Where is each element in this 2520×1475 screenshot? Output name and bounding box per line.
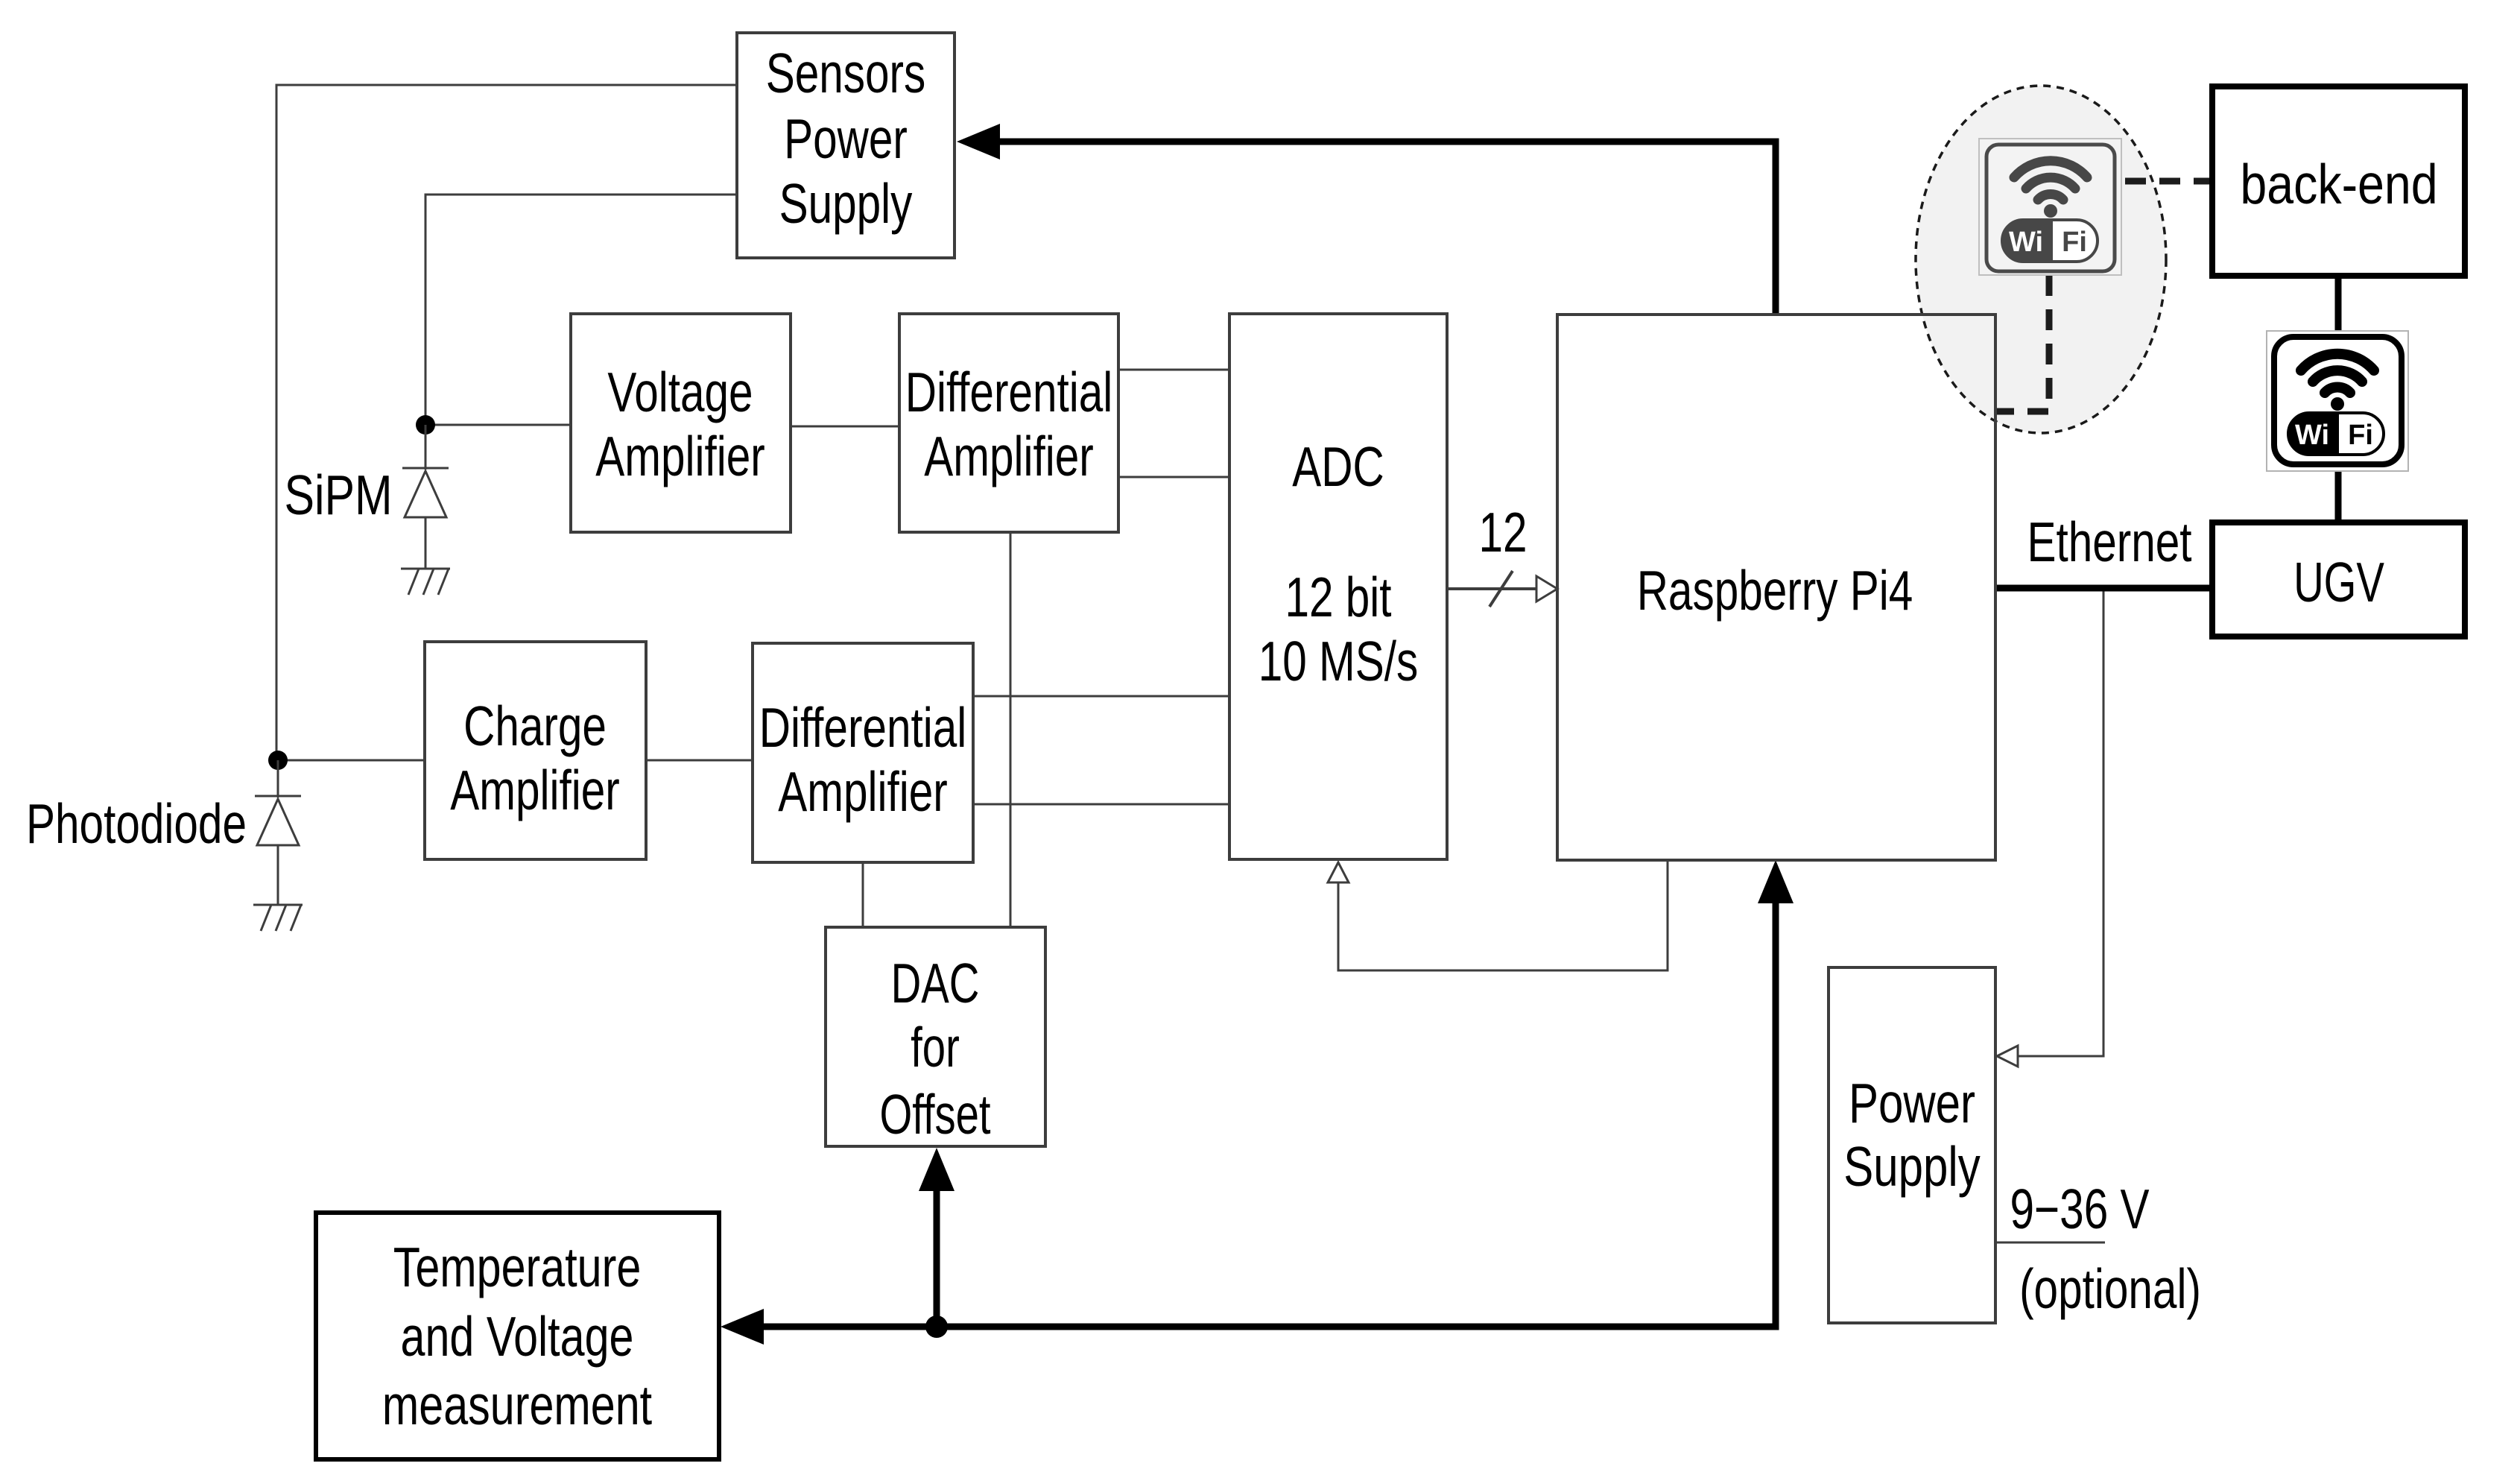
wire: lower Differential Amplifier to ADC input 4 [973, 803, 1229, 806]
wire: ADC data bus to Raspberry Pi4 [1448, 587, 1536, 590]
wire: Differential Amplifier to ADC input 1 [1118, 369, 1229, 371]
arrowhead: up into DAC [919, 1148, 955, 1191]
svg-text:UGV: UGV [2293, 552, 2384, 614]
svg-text:for: for [911, 1017, 960, 1079]
svg-text:measurement: measurement [382, 1374, 652, 1436]
svg-text:ADC: ADC [1292, 436, 1384, 499]
svg-text:10 MS/s: 10 MS/s [1259, 631, 1419, 693]
wire: lower Differential Amplifier offset input from DAC [862, 862, 864, 927]
svg-text:Charge: Charge [463, 695, 607, 758]
svg-text:Wi: Wi [2295, 420, 2329, 451]
svg-text:Ethernet: Ethernet [2027, 511, 2191, 574]
block: Charge Amplifier [425, 642, 646, 859]
svg-text:Power: Power [784, 108, 908, 171]
label: SiPM [284, 464, 392, 527]
thick wire: power rail bottom [756, 902, 1776, 1327]
wire: Differential Amplifier to ADC input 2 [1118, 476, 1229, 478]
svg-text:Wi: Wi [2009, 227, 2043, 258]
thick wire: back-end to WiFi [2335, 276, 2342, 331]
wire: SiPM bias from Sensors Power Supply [425, 195, 737, 425]
svg-text:Raspberry Pi4: Raspberry Pi4 [1637, 560, 1913, 622]
wire: SiPM node to Voltage Amplifier [425, 424, 571, 426]
arrowhead: bus open triangle into Raspberry Pi4 [1536, 576, 1557, 601]
block: Raspberry Pi4 [1557, 315, 1995, 860]
thick wire: Ethernet Raspberry Pi4 to UGV [1995, 585, 2212, 592]
svg-text:Photodiode: Photodiode [26, 793, 247, 856]
svg-text:Temperature: Temperature [393, 1236, 642, 1298]
arrowhead: up into Raspberry Pi4 [1758, 860, 1794, 903]
block: Sensors Power Supply [737, 33, 955, 258]
dashed link: WiFi cloud to Raspberry Pi4 [1995, 275, 2049, 411]
svg-text:Power: Power [1849, 1073, 1975, 1135]
wire: Ethernet tap down to Power Supply [2018, 588, 2103, 1056]
svg-text:Sensors: Sensors [766, 42, 926, 105]
wire: 9-36 V optional input stub [1995, 1242, 2105, 1244]
arrowhead: ADC clock open triangle [1328, 862, 1349, 882]
wire: lower Differential Amplifier to ADC input 3 [973, 695, 1229, 698]
svg-text:DAC: DAC [891, 953, 980, 1015]
block: ADC 12 bit 10 MS/s [1229, 314, 1447, 859]
wire: Charge Amplifier to Differential Amplifier [646, 759, 753, 762]
svg-text:12 bit: 12 bit [1285, 566, 1391, 629]
thick wire: WiFi to UGV [2335, 471, 2342, 522]
block: Voltage Amplifier [571, 314, 791, 532]
wire: Voltage Amplifier to Differential Amplifier [791, 426, 899, 428]
ground: SiPM [401, 569, 450, 595]
diode: SiPM [402, 425, 449, 569]
wifi cloud dashed ellipse [1916, 86, 2166, 433]
svg-text:Amplifier: Amplifier [450, 759, 620, 822]
svg-text:Supply: Supply [779, 173, 913, 236]
ground: photodiode [253, 905, 303, 931]
diode: photodiode [255, 760, 301, 905]
wire: upper Differential Amplifier offset input from DAC [1010, 532, 1012, 927]
label: (optional) [2019, 1258, 2201, 1321]
svg-text:Differential: Differential [759, 697, 967, 759]
svg-text:Supply: Supply [1843, 1137, 1980, 1198]
icon: WiFi link to UGV [2267, 331, 2408, 471]
svg-text:Offset: Offset [879, 1084, 990, 1146]
svg-text:12: 12 [1478, 502, 1527, 564]
block: upper Differential Amplifier [899, 314, 1118, 532]
svg-text:and Voltage: and Voltage [401, 1306, 634, 1368]
svg-text:Amplifier: Amplifier [924, 426, 1094, 488]
dashed link: WiFi cloud to back-end [2125, 178, 2212, 185]
wire: photodiode node to Charge Amplifier [278, 759, 425, 762]
arrowhead: into Sensors Power Supply [957, 124, 1000, 159]
icon: WiFi access point (cloud) [1979, 139, 2121, 275]
block: DAC for Offset [826, 927, 1045, 1146]
svg-text:Amplifier: Amplifier [595, 426, 765, 488]
block: lower Differential Amplifier [753, 643, 973, 862]
svg-text:Voltage: Voltage [607, 361, 753, 424]
node: photodiode junction dot [268, 751, 288, 770]
svg-text:9−36 V: 9−36 V [2010, 1178, 2149, 1241]
wire: ADC clock from Raspberry Pi4 [1338, 860, 1668, 970]
wire: photodiode bias from Sensors Power Supply [276, 85, 737, 760]
arrowhead: open triangle into Power Supply [1997, 1046, 2018, 1067]
svg-text:(optional): (optional) [2019, 1258, 2201, 1321]
svg-text:back-end: back-end [2240, 153, 2437, 215]
label: bus width 12 [1478, 502, 1527, 564]
thick wire: Raspberry Pi4 to Sensors Power Supply [991, 142, 1776, 315]
block: back-end [2212, 86, 2465, 276]
block: UGV [2212, 522, 2465, 637]
svg-text:Fi: Fi [2062, 227, 2087, 258]
svg-text:Amplifier: Amplifier [778, 761, 948, 824]
label: Ethernet [2027, 511, 2191, 574]
svg-text:Fi: Fi [2348, 420, 2373, 451]
block: Temperature and Voltage measurement [316, 1213, 719, 1459]
thick wire: power rail up to DAC [934, 1190, 940, 1327]
label: 9-36 V [2010, 1178, 2149, 1241]
block: Power Supply [1829, 967, 1995, 1323]
junction: power rail node [925, 1316, 948, 1338]
svg-text:SiPM: SiPM [284, 464, 392, 527]
arrowhead: left into Temperature measurement [721, 1309, 764, 1345]
node: SiPM junction dot [416, 415, 435, 435]
label: Photodiode [26, 793, 247, 856]
bus slash [1489, 571, 1513, 607]
svg-text:Differential: Differential [905, 361, 1113, 424]
